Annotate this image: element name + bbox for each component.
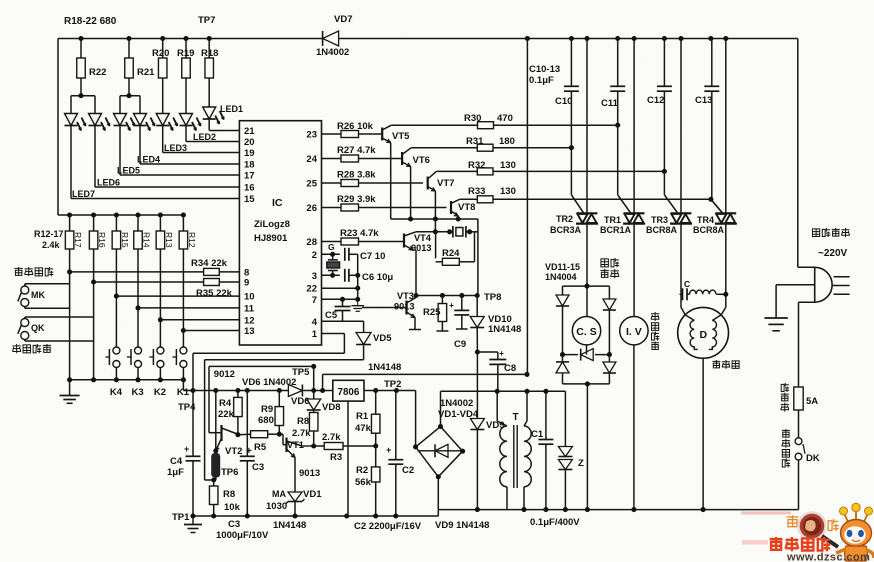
svg-text:26: 26 (306, 203, 317, 214)
svg-text:180: 180 (499, 136, 515, 147)
svg-text:TP7: TP7 (198, 15, 215, 26)
svg-text:G: G (328, 242, 335, 252)
svg-text:1000μF/10V: 1000μF/10V (216, 530, 269, 541)
svg-text:0.1μF/400V: 0.1μF/400V (530, 517, 580, 528)
svg-text:28: 28 (306, 237, 317, 248)
svg-text:2: 2 (312, 250, 317, 261)
svg-text:LED3: LED3 (164, 143, 187, 153)
svg-text:R25: R25 (423, 307, 441, 318)
wire DC feed line y374 (323, 372, 530, 377)
svg-text:R34 22k: R34 22k (191, 258, 228, 269)
crystal G (327, 242, 340, 275)
svg-text:C2: C2 (402, 465, 414, 476)
zener diode VD1 MA1030 (266, 458, 322, 532)
triac TR1 BCR1A (600, 39, 645, 236)
svg-text:1030: 1030 (266, 501, 287, 512)
watermark mascot (836, 503, 874, 561)
svg-text:C2 2200μF/16V: C2 2200μF/16V (354, 521, 422, 532)
bridge rectifier VD1-VD4 (413, 424, 465, 479)
IC left pin numbers (244, 126, 255, 337)
wire LED pair 2 feed (120, 93, 140, 113)
wire plug ground branch (776, 285, 815, 318)
svg-text:C4: C4 (170, 456, 183, 467)
svg-text:T: T (513, 412, 519, 423)
svg-text:2.7k: 2.7k (322, 432, 341, 443)
wire mains vertical x527 (526, 39, 528, 375)
svg-text:1: 1 (312, 329, 318, 340)
wire nested line A from IC pin1 (193, 334, 344, 391)
triac TR4 BCR8A (693, 39, 737, 236)
wire nested line C TP5 to VT2 base (209, 366, 314, 432)
svg-text:R20: R20 (152, 48, 169, 59)
wire C13 column to TR4 gate (711, 91, 722, 213)
svg-text:VD5: VD5 (373, 333, 392, 344)
svg-text:C. S: C. S (576, 326, 596, 338)
resistor R19 (177, 39, 194, 114)
LED LED5 (114, 114, 135, 131)
svg-text:9013: 9013 (411, 243, 431, 253)
svg-text:R1: R1 (356, 411, 369, 422)
svg-text:DK: DK (806, 453, 820, 464)
wire motor to bottom rail (702, 358, 704, 509)
resistor R22 (77, 39, 107, 96)
svg-text:21: 21 (244, 126, 255, 137)
svg-text:TR1: TR1 (604, 215, 621, 225)
zener Z bidirectional (558, 391, 584, 509)
capacitor C12 (647, 39, 672, 107)
label drain valve (Chinese) (600, 258, 619, 278)
svg-text:R22: R22 (89, 67, 106, 78)
svg-text:56k: 56k (355, 477, 372, 488)
resistor R9 680 (258, 391, 284, 437)
diode VD9 1N4148 (470, 352, 504, 510)
svg-text:BCR3A: BCR3A (550, 225, 582, 235)
svg-text:130: 130 (500, 186, 516, 197)
svg-text:130: 130 (500, 160, 516, 171)
svg-text:ZiLogz8: ZiLogz8 (254, 219, 290, 230)
svg-text:13: 13 (244, 326, 255, 337)
transformer T (497, 391, 531, 509)
transistor VT7 (428, 171, 455, 219)
svg-text:LED4: LED4 (137, 155, 160, 165)
svg-text:R12: R12 (187, 232, 197, 248)
resistor R1 47k (355, 391, 380, 449)
IC right pin numbers (306, 130, 317, 341)
wire R14 column to K3 (135, 249, 140, 380)
svg-text:1N4148: 1N4148 (368, 362, 401, 373)
svg-text:15: 15 (244, 194, 255, 205)
resistor R29 (322, 194, 447, 211)
node TP5 (292, 364, 316, 378)
svg-text:C9: C9 (454, 339, 466, 350)
wire bridge bottom to rail (437, 477, 439, 510)
wire 7806 output line to bridge (364, 388, 416, 447)
wire C10 column to TR2 gate (571, 91, 583, 213)
resistor R21 (125, 39, 155, 96)
wire LED pair 1 feed (71, 93, 95, 113)
svg-text:R13: R13 (164, 232, 174, 248)
svg-text:7806: 7806 (338, 387, 360, 398)
fuse 5A (794, 387, 818, 438)
capacitor C1 0.1uF/400V (531, 391, 553, 509)
wire bridge bottom bar (563, 381, 610, 509)
wire TP8 node line (413, 293, 479, 298)
wire bridge middle bar (560, 306, 612, 357)
svg-text:17: 17 (244, 171, 255, 182)
svg-text:VD8: VD8 (322, 402, 340, 413)
svg-text:VT6: VT6 (413, 155, 430, 166)
svg-text:C3: C3 (228, 519, 240, 530)
svg-text:C1: C1 (531, 429, 544, 440)
wire nested line B from VD5 cathode (205, 360, 364, 478)
svg-text:R21: R21 (137, 67, 155, 78)
junction R8/R3/VT1 collector (311, 443, 316, 448)
diode VD8 (307, 366, 341, 413)
svg-text:K4: K4 (110, 387, 123, 398)
svg-text:R16: R16 (97, 232, 107, 248)
capacitor C2 2200uF (386, 391, 414, 517)
diode VD14 (556, 355, 569, 384)
wire TR3 to motor left (681, 224, 685, 315)
capacitor C11 (601, 39, 625, 110)
LED LED3 (156, 114, 177, 131)
wire to IC pin 8 via R34 (70, 268, 240, 275)
wire bridge top riser to AC line (441, 389, 566, 427)
wire K1 to main 12V line (183, 380, 288, 391)
wire to IC pin 11 (138, 307, 239, 309)
transistor VT6 (402, 148, 430, 219)
svg-text:C13: C13 (695, 95, 712, 106)
label water level switch (Chinese) (12, 344, 51, 353)
svg-text:16: 16 (244, 183, 255, 194)
ground symbol left (60, 380, 80, 404)
svg-text:VT7: VT7 (437, 178, 454, 189)
svg-text:www.dzsc.com: www.dzsc.com (786, 552, 870, 562)
svg-text:TP8: TP8 (484, 292, 501, 303)
svg-text:9: 9 (244, 278, 249, 289)
svg-text:VT2: VT2 (225, 446, 242, 457)
svg-text:9013: 9013 (299, 468, 320, 479)
resistor R13 (156, 215, 174, 249)
svg-text:19: 19 (244, 148, 255, 159)
label power plug (Chinese) (813, 228, 850, 237)
LED LED7 (65, 114, 86, 131)
wire R12-17 supply line (58, 212, 186, 217)
svg-text:0.1μF: 0.1μF (529, 75, 554, 86)
switch DK (795, 438, 820, 510)
svg-text:1N4002: 1N4002 (440, 398, 473, 409)
svg-text:C7 10: C7 10 (360, 251, 385, 262)
svg-text:10: 10 (244, 292, 255, 303)
svg-text:R27 4.7k: R27 4.7k (337, 145, 376, 156)
power plug 220V (815, 267, 850, 302)
wire to IC pin 9 via R35 (94, 279, 240, 286)
resistor R20 (152, 39, 169, 114)
svg-text:VD1: VD1 (303, 489, 322, 500)
svg-text:C10-13: C10-13 (529, 64, 560, 75)
diode VD11 (556, 295, 569, 306)
resistor R17 (65, 215, 83, 249)
svg-text:C12: C12 (647, 95, 664, 106)
svg-text:TP1: TP1 (172, 512, 190, 523)
svg-text:R32: R32 (468, 160, 485, 171)
svg-text:R14: R14 (142, 232, 152, 248)
svg-text:20: 20 (244, 137, 255, 148)
transistor VT4 9013 (404, 232, 435, 296)
svg-text:470: 470 (497, 113, 513, 124)
label fuse (Chinese vertical) (781, 383, 789, 412)
svg-text:K2: K2 (154, 387, 166, 398)
svg-text:R24: R24 (442, 248, 460, 259)
svg-text:TP6: TP6 (221, 467, 238, 478)
crystal resonator (433, 219, 478, 296)
svg-text:+: + (386, 445, 391, 455)
diode VD15 (603, 355, 616, 384)
svg-text:TR2: TR2 (556, 214, 573, 224)
svg-text:LED6: LED6 (97, 178, 120, 188)
svg-text:680: 680 (258, 415, 274, 426)
svg-text:R19: R19 (177, 48, 194, 59)
resistor R24 (436, 232, 475, 265)
capacitor C3 (240, 391, 264, 517)
resistor R30 470 (391, 113, 620, 129)
svg-text:2.4k: 2.4k (42, 240, 61, 250)
svg-text:R18: R18 (201, 48, 218, 59)
svg-text:1N4002: 1N4002 (316, 47, 349, 58)
svg-text:R5: R5 (254, 442, 267, 453)
node TP6 bottom junction (205, 477, 217, 482)
capacitor C9 (449, 296, 469, 351)
capacitor C motor start (680, 279, 691, 300)
svg-text:R2: R2 (356, 465, 368, 476)
wire R17 column (67, 249, 72, 380)
svg-text:R8: R8 (297, 416, 309, 427)
resistor R26 (322, 121, 383, 138)
svg-text:R4: R4 (219, 398, 232, 409)
switch QK (18, 317, 94, 341)
svg-text:BCR1A: BCR1A (600, 225, 632, 235)
svg-text:12: 12 (244, 315, 255, 326)
svg-text:1μF: 1μF (167, 467, 184, 478)
resistor R8 10k (209, 480, 240, 516)
svg-text:R15: R15 (120, 232, 130, 248)
wire C12 column to TR3 gate (664, 91, 677, 213)
resistor R27 (322, 145, 403, 162)
wire bottom rail left section (190, 510, 438, 519)
wire pin22 line (322, 254, 361, 299)
regulator 7806 (333, 380, 364, 401)
svg-text:1N4148: 1N4148 (273, 520, 306, 531)
svg-text:24: 24 (306, 154, 317, 165)
wire R12 column to K1 (181, 249, 186, 380)
svg-text:+: + (499, 348, 504, 358)
svg-text:11: 11 (244, 303, 255, 314)
capacitor C6 10u (322, 269, 394, 283)
wire to IC pin 10 (116, 295, 239, 297)
diode VD12 (603, 299, 616, 310)
junction dots on main 12V line (190, 388, 281, 393)
svg-text:VD6 1N4002: VD6 1N4002 (242, 377, 296, 388)
resistor R16 (89, 215, 107, 249)
svg-text:47k: 47k (355, 423, 372, 434)
transistor VT2 9012 (216, 425, 252, 457)
wire TR2 to valve bridge (586, 224, 588, 287)
resistor R12 (179, 215, 197, 249)
svg-text:25: 25 (306, 179, 317, 190)
wire bottom switch rail (67, 377, 186, 382)
capacitor C10 (555, 39, 579, 108)
svg-text:5A: 5A (806, 396, 818, 407)
svg-text:HJ8901: HJ8901 (254, 233, 288, 244)
svg-text:VT1: VT1 (287, 440, 304, 450)
valve I.V circle (620, 224, 648, 510)
svg-text:7: 7 (312, 295, 317, 306)
label power switch (Chinese vertical) (782, 429, 790, 467)
IC U1 ZiLogz8 HJ8901 microcontroller (239, 121, 321, 345)
transistor VT1 9013 (283, 434, 320, 479)
svg-text:LED1: LED1 (220, 104, 243, 114)
transistor VT3 9013 (362, 291, 421, 330)
svg-text:LED2: LED2 (193, 132, 216, 142)
wire 7806 input riser (322, 374, 324, 390)
svg-text:~220V: ~220V (818, 248, 848, 259)
svg-text:R28 3.8k: R28 3.8k (337, 170, 376, 181)
svg-text:MA: MA (272, 489, 286, 499)
svg-text:LED5: LED5 (117, 166, 140, 176)
wire TR4 to motor right (721, 224, 728, 315)
svg-text:C8: C8 (504, 363, 516, 374)
svg-text:R35 22k: R35 22k (196, 288, 233, 299)
transistor VT5 (382, 125, 410, 219)
svg-text:22: 22 (306, 284, 317, 295)
label motor (Chinese) (712, 360, 739, 369)
svg-text:R26 10k: R26 10k (337, 121, 374, 132)
svg-text:VT3: VT3 (397, 291, 414, 301)
svg-text:R17: R17 (73, 232, 83, 248)
label safety switch (Chinese) (14, 267, 53, 276)
svg-text:C: C (684, 279, 690, 289)
switch K1 (172, 347, 189, 398)
svg-text:VT5: VT5 (392, 131, 410, 142)
wire bottom rail right section (438, 507, 798, 512)
wires LED cathodes to IC pins 21-15 (71, 119, 239, 199)
svg-text:1N4004: 1N4004 (545, 272, 577, 282)
motor D circle (678, 307, 729, 358)
resistor R31 180 (411, 136, 574, 151)
wire to IC pin 13 (183, 330, 239, 332)
switch MK (18, 284, 70, 309)
capacitor C7 10 (322, 248, 386, 262)
svg-text:D: D (700, 329, 708, 341)
svg-text:23: 23 (306, 130, 317, 141)
svg-text:+: + (449, 300, 454, 310)
diode bridge VD11-15 top bar (563, 284, 610, 299)
wire pin7 line with ground (322, 297, 361, 302)
svg-text:R18-22 680: R18-22 680 (64, 16, 117, 27)
capacitor C4 1uF (167, 391, 201, 517)
svg-text:C6 10μ: C6 10μ (362, 272, 393, 283)
svg-text:MK: MK (31, 290, 45, 300)
label inlet valve (Chinese vertical) (651, 312, 659, 350)
junction dots on top rail (78, 36, 728, 41)
svg-text:BCR8A: BCR8A (693, 225, 725, 235)
svg-text:R23 4.7k: R23 4.7k (340, 228, 379, 239)
svg-text:1N4148: 1N4148 (488, 324, 521, 335)
svg-text:R31: R31 (466, 136, 484, 147)
svg-text:VD7: VD7 (334, 14, 352, 25)
LED LED6 (89, 114, 110, 131)
LED LED4 (134, 114, 155, 131)
diode VD6 1N4002 (242, 377, 333, 407)
svg-text:TP2: TP2 (384, 379, 401, 390)
watermark pink marks (741, 512, 791, 545)
LED LED2 (180, 114, 201, 131)
ground symbol at pin7 (351, 299, 364, 311)
svg-text:10k: 10k (224, 502, 241, 513)
svg-text:C10: C10 (555, 96, 572, 107)
relay C.S circle (572, 286, 600, 355)
svg-text:C3: C3 (252, 462, 264, 473)
resistor R15 (112, 215, 130, 249)
diode VD5 1N4148 (356, 333, 392, 360)
wire 7806 ground pin (347, 401, 349, 516)
resistor R25 (423, 296, 448, 332)
triac TR2 BCR3A (550, 39, 598, 236)
svg-text:C11: C11 (601, 98, 619, 109)
svg-text:R30: R30 (464, 113, 481, 124)
svg-text:Z: Z (578, 458, 584, 469)
capacitor C5 (325, 299, 351, 321)
inductor motor start winding (690, 290, 726, 294)
transistor VT8 (451, 199, 475, 219)
svg-text:R33: R33 (468, 186, 485, 197)
resistor R18 (201, 39, 218, 108)
svg-text:R29 3.9k: R29 3.9k (337, 194, 376, 205)
svg-text:TP5: TP5 (292, 367, 310, 378)
svg-text:VD11-15: VD11-15 (545, 262, 580, 272)
resistor R14 (134, 215, 152, 249)
wire to IC pin 12 (160, 319, 239, 321)
triac TR3 BCR8A (646, 39, 692, 236)
diode VD10 1N4148 (470, 296, 521, 353)
svg-text:R9: R9 (261, 404, 273, 415)
wire R13 column to K2 (158, 249, 163, 380)
capacitor C8 (475, 348, 516, 391)
svg-text:4: 4 (312, 317, 318, 328)
wire pin4 line (322, 321, 364, 332)
resistor R23 (322, 228, 405, 245)
svg-text:22k: 22k (218, 409, 235, 420)
svg-text:TR3: TR3 (651, 215, 668, 225)
capacitor C13 (695, 39, 719, 107)
svg-text:VT4: VT4 (414, 233, 432, 243)
switch K4 (105, 347, 122, 398)
resistor R5 (238, 431, 283, 453)
svg-text:2.7k: 2.7k (292, 428, 311, 439)
wire R15 column to K4 (114, 249, 119, 380)
svg-text:3: 3 (312, 271, 317, 282)
svg-text:R8: R8 (223, 489, 235, 500)
svg-text:LED7: LED7 (72, 189, 95, 199)
wire VT2 emitter riser (213, 391, 218, 454)
resistor R8 2.7k (292, 410, 318, 446)
resistor R3 2.7k (314, 432, 376, 463)
svg-text:C5: C5 (325, 310, 338, 321)
svg-text:18: 18 (244, 160, 255, 171)
svg-text:I. V: I. V (626, 326, 642, 338)
resistor R28 (322, 170, 424, 187)
ground symbol TP1 (184, 516, 202, 533)
